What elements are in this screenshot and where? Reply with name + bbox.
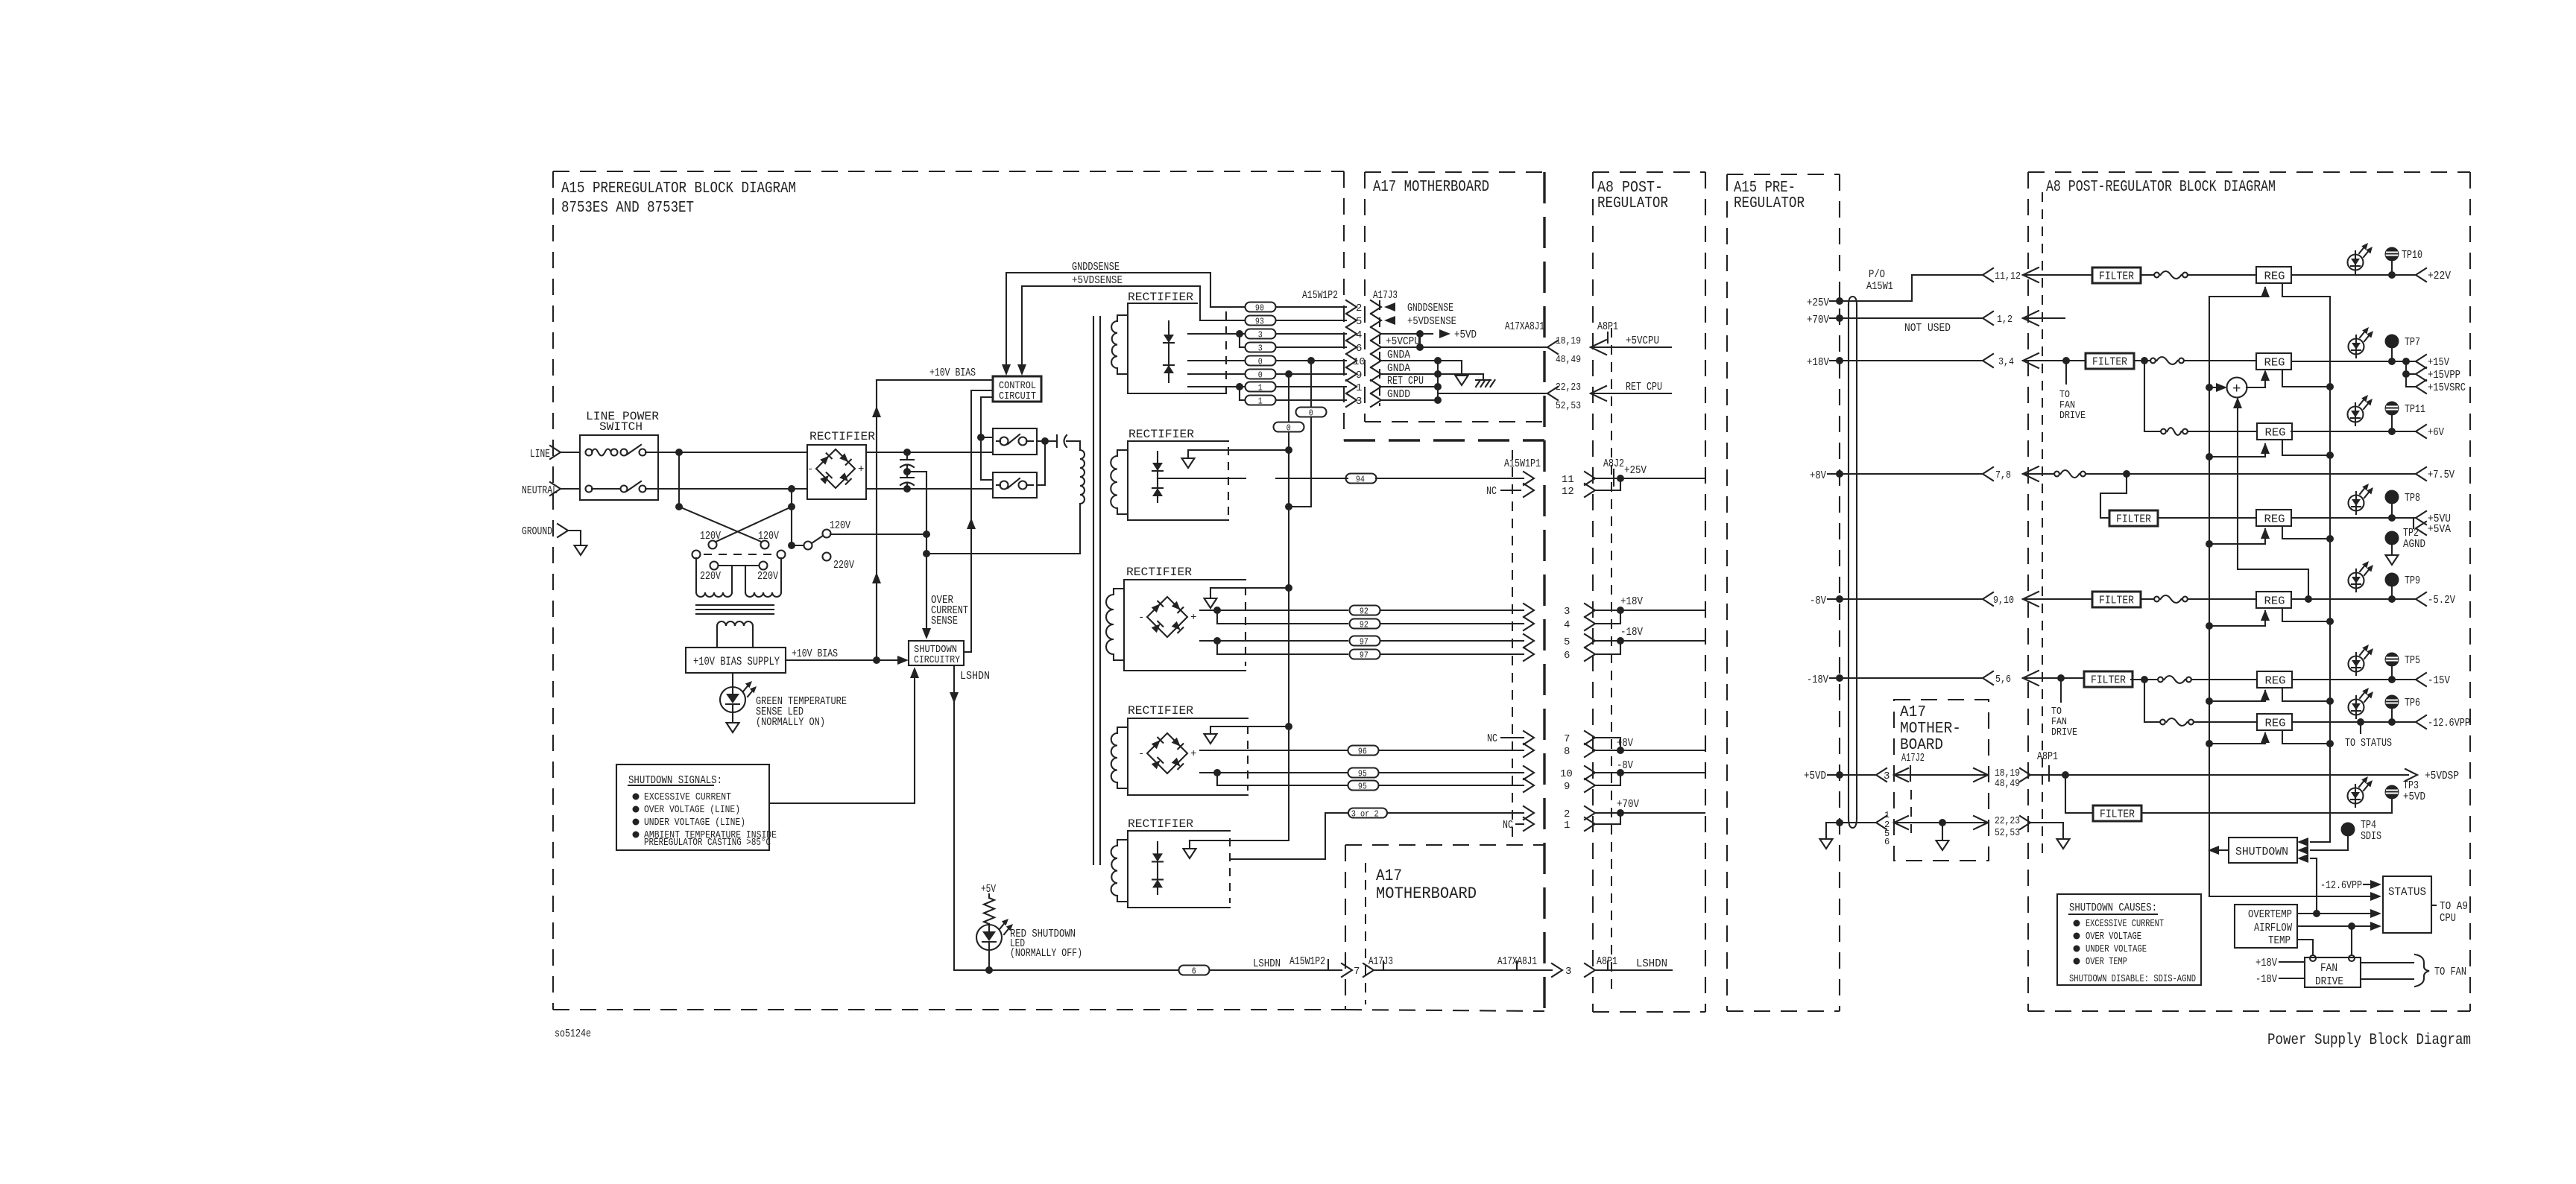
filter 1 +22V [2065, 274, 2092, 276]
fuse 7 [2144, 721, 2160, 723]
regulator REG6 -15V [2257, 671, 2292, 688]
test point TP4 SDIS [2341, 823, 2355, 837]
svg-text:3,4: 3,4 [1998, 356, 2014, 368]
wire LINE switch to rectifier [658, 452, 807, 453]
svg-text:AIRFLOW: AIRFLOW [2254, 922, 2292, 934]
rect3 ground [1210, 588, 1211, 598]
pin 7 LSHDN [1342, 963, 1352, 977]
REG7 input [2206, 740, 2213, 747]
svg-text:RET CPU: RET CPU [1626, 381, 1662, 393]
designator oval 3 b [1246, 343, 1276, 352]
ground return row [1826, 822, 1876, 823]
test point TP8 [2385, 490, 2399, 504]
pin 4 A15W1P2/A17J3 [1346, 327, 1357, 341]
shutdown input 1 from rail [2311, 841, 2330, 843]
wire +5VD to +5VDSP [2030, 774, 2408, 776]
svg-text:5: 5 [1356, 316, 1362, 328]
REG6 input [2206, 697, 2213, 705]
A17 motherboard bottom dashed box [1345, 845, 1346, 1010]
pin 18,19 48,49 +5VCPU [1547, 341, 1558, 354]
wire -8V out [1594, 772, 1705, 773]
svg-text:TP6: TP6 [2405, 697, 2420, 709]
regulator REG2 +15V [2256, 353, 2291, 370]
designator oval 1 b [1246, 396, 1276, 405]
designator oval 92 a [1350, 606, 1380, 615]
svg-text:+5VCPU: +5VCPU [1386, 335, 1420, 348]
pin 5 A15W1P2/A17J3 [1346, 314, 1357, 327]
svg-text:FILTER: FILTER [2092, 356, 2127, 369]
svg-text:8753ES AND 8753ET: 8753ES AND 8753ET [561, 200, 694, 217]
svg-text:SENSE: SENSE [931, 615, 958, 627]
svg-text:A17: A17 [1376, 867, 1402, 885]
svg-text:+7.5V: +7.5V [2428, 469, 2455, 481]
svg-text:SHUTDOWN: SHUTDOWN [2235, 846, 2288, 858]
arrow into shutdown circuitry [922, 628, 931, 639]
svg-text:so5124e: so5124e [555, 1028, 591, 1040]
svg-text:+15V: +15V [2428, 356, 2449, 369]
svg-text:+: + [2232, 381, 2241, 397]
svg-text:-18V: -18V [1807, 674, 1828, 686]
A15 preregulator block dashed border [552, 171, 554, 1010]
svg-text:TP10: TP10 [2402, 249, 2422, 262]
svg-text:11: 11 [1562, 474, 1574, 486]
svg-text:OVER VOLTAGE (LINE): OVER VOLTAGE (LINE) [644, 804, 740, 816]
wire pin4 to +5VD arrow [1380, 333, 1433, 335]
svg-text:GNDD: GNDD [1387, 388, 1410, 401]
svg-text:LSHDN: LSHDN [1636, 957, 1667, 970]
svg-text:SDIS: SDIS [2361, 830, 2381, 843]
wire -15V branch to REG7 [2144, 680, 2145, 722]
wire REG4 sense out [2282, 526, 2330, 539]
svg-text:TP11: TP11 [2405, 403, 2425, 416]
svg-text:GNDA: GNDA [1387, 362, 1410, 375]
svg-text:RET CPU: RET CPU [1387, 375, 1424, 387]
analog ground symbol [1438, 360, 1462, 361]
svg-text:92: 92 [1360, 619, 1368, 630]
svg-text:OVER VOLTAGE: OVER VOLTAGE [2086, 931, 2141, 943]
svg-text:+18V: +18V [1807, 356, 1829, 369]
svg-text:9,10: 9,10 [1993, 595, 2014, 607]
svg-text:TP7: TP7 [2405, 336, 2420, 349]
svg-text:GROUND: GROUND [522, 525, 552, 538]
fuse 1 [2141, 274, 2154, 276]
A17 motherboard top dashed box [1365, 171, 1544, 173]
+5VDSENSE arrow into pin 5 [1384, 316, 1395, 325]
test point TP6 [2385, 695, 2399, 709]
wire REG1 out +22V [2291, 274, 2416, 276]
test point TP9 [2385, 573, 2399, 587]
svg-text:-: - [1138, 612, 1144, 624]
svg-text:1: 1 [1564, 820, 1570, 832]
selector dashed link [704, 554, 777, 555]
transformer T1 primary winding right [745, 566, 746, 592]
svg-text:48,49: 48,49 [1995, 778, 2020, 790]
filter 2 +15V [2086, 353, 2134, 369]
pins 3,4,5,6 A15W1P1 [1524, 604, 1534, 617]
pin 6 A15W1P2/A17J3 [1346, 341, 1357, 354]
svg-text:TP5: TP5 [2405, 654, 2420, 667]
test point TP5 [2385, 653, 2399, 667]
A8 connector dashed line [1611, 328, 1612, 991]
svg-text:LSHDN: LSHDN [1253, 957, 1281, 970]
wire GNDDSENSE drop to oval 90 [1210, 306, 1246, 308]
svg-text:NC: NC [1486, 485, 1497, 498]
svg-text:TP9: TP9 [2405, 574, 2420, 587]
LED -12.6VPP [2349, 700, 2364, 715]
svg-text:120V: 120V [700, 530, 721, 542]
TO A9 CPU label [2431, 905, 2436, 906]
svg-text:2: 2 [1564, 808, 1570, 820]
selector outer contacts [692, 551, 701, 559]
svg-text:+5VD: +5VD [2403, 791, 2425, 803]
wire rect1 GNDD [1188, 373, 1246, 375]
wire oval to pin 2 [1387, 812, 1524, 814]
svg-text:FILTER: FILTER [2100, 808, 2135, 821]
filter 7 +5VD [2065, 775, 2093, 813]
shutdown input 3 [2311, 858, 2317, 859]
arrow +10V bias into shutdown circuitry [897, 656, 909, 665]
svg-text:A17XA8J1: A17XA8J1 [1505, 320, 1544, 333]
svg-text:6: 6 [1884, 837, 1890, 847]
line power switch S1 box [580, 435, 658, 500]
rectifier 4 box [1128, 718, 1248, 795]
svg-text:+5VA: +5VA [2428, 523, 2451, 536]
svg-text:A15W1P2: A15W1P2 [1289, 955, 1325, 968]
wire LSHDN out [1594, 969, 1672, 971]
designator oval 3 or 2 [1348, 808, 1387, 818]
RET CPU arrow from A8P1 [1591, 386, 1606, 401]
rect5 ground [1189, 840, 1190, 849]
svg-text:12: 12 [1562, 486, 1574, 498]
svg-text:TEMP: TEMP [2268, 934, 2291, 947]
wire GNDD bus vertical [1437, 361, 1439, 400]
svg-text:220V: 220V [700, 570, 721, 583]
svg-text:120V: 120V [758, 530, 779, 542]
svg-text:RECTIFIER: RECTIFIER [1128, 291, 1193, 304]
shutdown causes note box [2057, 894, 2201, 985]
designator oval 0 rect2 a [1296, 408, 1327, 417]
svg-text:DRIVE: DRIVE [2051, 726, 2077, 738]
regulator REG4 +5VU [2256, 510, 2291, 526]
regulator REG5 -5.2V [2256, 592, 2291, 608]
designator oval 3 a [1246, 329, 1276, 339]
svg-text:3: 3 [1565, 966, 1571, 978]
svg-text:+6V: +6V [2428, 426, 2444, 439]
svg-text:CIRCUITRY: CIRCUITRY [914, 654, 960, 666]
svg-text:220V: 220V [757, 570, 778, 583]
LSHDN vertical from shutdown circuitry [953, 665, 955, 970]
svg-text:+5VCPU: +5VCPU [1626, 335, 1659, 347]
wire shutdown to control circuit [964, 390, 993, 652]
fuse 5 [2141, 598, 2154, 600]
svg-text:SWITCH: SWITCH [599, 420, 643, 434]
fuse 3 +6V [2144, 431, 2161, 432]
svg-text:120V: 120V [830, 519, 850, 532]
regulator REG1 +22V [2256, 267, 2291, 283]
wire rect5 +70V output [1230, 813, 1348, 859]
svg-text:3: 3 [1258, 329, 1263, 340]
wire -18V fan tap [2057, 674, 2065, 682]
wire REG7 sense out [2282, 730, 2330, 744]
svg-text:CIRCUIT: CIRCUIT [999, 390, 1036, 402]
svg-text:STATUS: STATUS [2388, 886, 2426, 899]
svg-text:DRIVE: DRIVE [2059, 410, 2086, 422]
svg-text:LINE: LINE [530, 448, 550, 460]
svg-text:A8 POST-: A8 POST- [1597, 180, 1663, 197]
svg-text:11,12: 11,12 [1995, 270, 2021, 282]
svg-text:+22V: +22V [2428, 270, 2451, 282]
connector A15W1P1 line [1512, 450, 1513, 842]
svg-text:7: 7 [1354, 966, 1360, 978]
svg-text:MOTHER-: MOTHER- [1900, 721, 1961, 738]
svg-text:A15W1: A15W1 [1866, 280, 1893, 293]
svg-text:FAN: FAN [2320, 962, 2337, 975]
wire GNDA drop to rect2 [1307, 357, 1315, 364]
A17 mother-board small box [1894, 700, 1989, 861]
svg-text:A15 PRE-: A15 PRE- [1734, 180, 1796, 197]
chassis ground symbol [1438, 373, 1483, 375]
test point TP11 [2385, 402, 2399, 416]
wire REG3 out +6V [2291, 431, 2416, 432]
svg-text:TP8: TP8 [2405, 492, 2420, 504]
fan drive box [2305, 957, 2361, 987]
wire filter7 to TP3 [2141, 812, 2392, 814]
svg-text:A17J2: A17J2 [1901, 752, 1925, 764]
wire REG5 sense out [2282, 608, 2330, 621]
svg-text:9: 9 [1564, 781, 1570, 793]
wire pin1 RET CPU [1380, 386, 1438, 387]
svg-text:+10V BIAS SUPPLY: +10V BIAS SUPPLY [693, 655, 780, 668]
wire pin6 +5VCPU to A17XA8J1 [1380, 346, 1547, 348]
+10V bias vertical rail [876, 380, 877, 660]
wire +15V branch down [2144, 361, 2145, 431]
wire oval94 to A15W1P1 [1276, 478, 1348, 479]
svg-text:REGULATOR: REGULATOR [1597, 195, 1668, 212]
svg-text:52,53: 52,53 [1995, 827, 2020, 839]
svg-text:REG: REG [2265, 718, 2286, 730]
svg-text:0: 0 [1258, 370, 1263, 380]
svg-text:A17: A17 [1900, 704, 1926, 721]
wire LINE to switch [560, 452, 580, 453]
svg-text:0: 0 [1258, 356, 1263, 367]
svg-text:NC: NC [1503, 819, 1513, 832]
svg-text:-12.6VPP: -12.6VPP [2320, 879, 2362, 892]
connector A15W1P2 line [1379, 300, 1380, 406]
svg-text:+25V: +25V [1624, 464, 1647, 477]
filter 5 -5.2V [2092, 592, 2141, 607]
ground symbol at input [575, 545, 587, 555]
fan drive outputs [2361, 962, 2414, 963]
svg-text:10: 10 [1560, 768, 1573, 780]
regulator REG7 -12.6VPP [2257, 714, 2292, 730]
wire +25V out [1594, 478, 1705, 479]
control circuit box [993, 376, 1041, 402]
svg-text:TO FAN: TO FAN [2434, 966, 2466, 978]
wire rectifier output bottom [866, 488, 993, 490]
rectifier 2 diodes [1157, 452, 1158, 502]
wire -5.2V feedback to sum [2238, 399, 2308, 599]
chopper switch Q2 box [993, 472, 1037, 498]
svg-text:GNDDSENSE: GNDDSENSE [1407, 302, 1453, 314]
designator oval 6 [1179, 966, 1210, 975]
svg-text:3: 3 [1258, 343, 1263, 353]
svg-text:5,6: 5,6 [1995, 674, 2011, 686]
wire REG2 out +15V [2291, 361, 2416, 362]
wire +8V out [1594, 738, 1620, 750]
wire rect1 RET CPU [1188, 386, 1246, 387]
svg-text:-8V: -8V [1810, 595, 1826, 607]
svg-text:22,23: 22,23 [1995, 815, 2020, 827]
test point TP3 [2385, 785, 2399, 800]
svg-text:10: 10 [1353, 356, 1366, 368]
designator oval 97 a [1350, 636, 1380, 646]
filter 6 -15V [2084, 671, 2133, 687]
svg-text:+5VD: +5VD [1804, 770, 1826, 782]
wire GNDD drop to rect2 [1285, 370, 1292, 378]
wire rect4 -8V outputs [1200, 772, 1348, 773]
fuse 6 [2131, 679, 2158, 680]
svg-text:Power Supply Block Diagram: Power Supply Block Diagram [2267, 1032, 2471, 1049]
test point TP10 [2385, 247, 2399, 262]
transformer T1 core [696, 604, 774, 606]
selector 220V contacts and link bar [710, 562, 719, 570]
airflow line to status [2297, 925, 2370, 927]
rectifier 3 winding [1114, 589, 1124, 595]
svg-text:REGULATOR: REGULATOR [1734, 195, 1805, 212]
svg-text:93: 93 [1255, 316, 1264, 326]
svg-text:REG: REG [2264, 595, 2285, 608]
rectifier 2 box [1128, 441, 1228, 520]
svg-text:SHUTDOWN DISABLE: SDIS-AGND: SHUTDOWN DISABLE: SDIS-AGND [2069, 973, 2196, 985]
wire sum to REG2 [2247, 373, 2265, 387]
overtemp line to status [2297, 913, 2370, 914]
wire REG5 out -5.2V [2291, 598, 2416, 600]
+5VD arrow [1439, 329, 1450, 338]
A8 post-regulator narrow dashed box [1592, 172, 1594, 1012]
airflow drop to fan drive [2351, 926, 2352, 955]
svg-text:GNDDSENSE: GNDDSENSE [1072, 261, 1120, 273]
svg-text:NOT USED: NOT USED [1904, 322, 1951, 335]
svg-text:RECTIFIER: RECTIFIER [809, 430, 875, 443]
svg-text:1: 1 [1258, 396, 1263, 406]
bias transformer secondary winding [717, 621, 753, 626]
svg-text:A17 MOTHERBOARD: A17 MOTHERBOARD [1373, 179, 1489, 196]
svg-text:94: 94 [1356, 474, 1365, 484]
+15VPP branch [2405, 361, 2407, 374]
svg-text:2: 2 [1356, 303, 1362, 314]
shutdown output arrow [2220, 849, 2229, 851]
selector crossing wires [679, 507, 765, 543]
svg-text:97: 97 [1360, 636, 1368, 647]
line voltage select switch [792, 545, 804, 546]
wire over-current sense vertical [926, 472, 927, 635]
LED +22V [2348, 255, 2364, 270]
svg-text:52,53: 52,53 [1556, 400, 1581, 412]
designator oval 96 [1348, 746, 1379, 756]
svg-text:4: 4 [1564, 619, 1570, 631]
svg-text:3: 3 [1564, 606, 1570, 618]
svg-text:-18V: -18V [2255, 973, 2277, 986]
svg-text:+10V BIAS: +10V BIAS [792, 648, 838, 660]
svg-text:UNDER VOLTAGE (LINE): UNDER VOLTAGE (LINE) [644, 817, 745, 829]
pin 10 A15W1P2/A17J3 [1346, 354, 1357, 367]
selector 120V contacts [709, 541, 717, 549]
chopper switch Q1 box [993, 428, 1037, 455]
rectifier 3 bridge [1147, 597, 1187, 637]
svg-text:RECTIFIER: RECTIFIER [1128, 428, 1194, 441]
wire pin9 GNDA [1380, 373, 1438, 375]
svg-text:NC: NC [1487, 732, 1497, 745]
wire shutdown signals to shutdown circuitry [769, 673, 915, 803]
designator oval 93 [1246, 316, 1276, 326]
A15 pre-regulator narrow dashed box [1726, 174, 1728, 1011]
svg-text:A17J3: A17J3 [1373, 289, 1398, 302]
wire REG3 sense out [2282, 440, 2330, 455]
wire REG6 sense out [2282, 688, 2330, 701]
shutdown box [2229, 838, 2297, 863]
REG4 input [2206, 540, 2213, 548]
designator oval 90 [1246, 303, 1276, 312]
svg-text:CPU: CPU [2440, 912, 2456, 925]
red LED resistor [988, 894, 990, 898]
svg-text:TO A9: TO A9 [2440, 900, 2468, 913]
rectifier 1 box [1128, 303, 1226, 393]
wire NEUTRAL switch to rectifier [658, 488, 807, 490]
svg-text:92: 92 [1360, 606, 1368, 616]
+5VCPU arrow from A8P1 [1591, 340, 1606, 355]
wire selector right vertical [791, 489, 792, 545]
wire selector left vertical [678, 452, 680, 507]
svg-text:+18V: +18V [1620, 595, 1643, 608]
wire 0 net verticals to rect2 [1310, 417, 1312, 507]
svg-text:95: 95 [1358, 768, 1367, 779]
svg-text:7: 7 [1564, 733, 1570, 745]
designator oval 0 rect2 b [1274, 422, 1304, 432]
svg-text:9: 9 [1356, 370, 1362, 382]
svg-text:1: 1 [1356, 382, 1362, 394]
capacitor C2 [900, 477, 914, 478]
wire +70V out [1594, 812, 1705, 814]
ground wire [567, 531, 581, 545]
svg-text:8: 8 [1564, 746, 1570, 758]
svg-text:GNDA: GNDA [1387, 349, 1410, 361]
svg-text:+5VDSENSE: +5VDSENSE [1407, 315, 1456, 328]
svg-text:+70V: +70V [1617, 798, 1639, 811]
svg-text:-: - [1138, 748, 1144, 760]
pin 1 A15W1P2/A17J3 [1346, 380, 1357, 393]
svg-text:OVER TEMP: OVER TEMP [2086, 956, 2127, 968]
pin 2 A15W1P2/A17J3 [1346, 300, 1357, 314]
wire +10V bias to control circuit [877, 379, 993, 381]
svg-text:+15VPP: +15VPP [2428, 369, 2460, 382]
svg-text:A8J2: A8J2 [1603, 458, 1624, 470]
shutdown rail to status [2209, 896, 2370, 897]
rectifier 5 diodes [1157, 842, 1158, 894]
svg-text:18,19: 18,19 [1556, 335, 1581, 347]
line power switch contacts bottom [586, 486, 593, 493]
svg-text:+70V: +70V [1807, 314, 1829, 326]
green temperature sense LED [732, 673, 733, 686]
svg-text:FILTER: FILTER [2116, 513, 2151, 526]
svg-text:EXCESSIVE CURRENT: EXCESSIVE CURRENT [644, 791, 731, 803]
summing junction [2206, 384, 2213, 391]
rectifier 3 box [1124, 580, 1246, 671]
wire REG2 sense out [2282, 370, 2330, 387]
test point TP7 [2385, 335, 2399, 349]
svg-text:5: 5 [1564, 636, 1570, 648]
wire rect1 GNDA [1188, 360, 1246, 361]
wire +18V out [1594, 610, 1705, 611]
